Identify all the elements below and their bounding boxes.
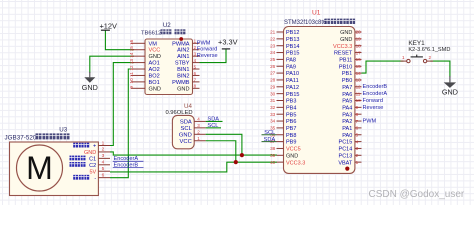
- svg-text:Forward: Forward: [197, 47, 218, 53]
- svg-text:AO1: AO1: [149, 61, 160, 67]
- wire U2 GND pin to ground symbol: [90, 56, 134, 72]
- svg-text:5: 5: [356, 132, 359, 137]
- svg-text:32: 32: [270, 105, 276, 110]
- U1 left pin PA10 number 27: [270, 71, 299, 78]
- svg-text:PB4: PB4: [286, 105, 296, 111]
- U1 bottom marker dot: [345, 167, 349, 171]
- svg-text:C2: C2: [89, 163, 96, 169]
- svg-text:1: 1: [402, 55, 405, 60]
- U1 left pin PA12 number 29: [270, 84, 299, 91]
- U2 right pin STBY: [175, 58, 200, 67]
- MCU board U1 subtitle STM32: [284, 19, 355, 27]
- U2 right pin AIN2: [177, 45, 199, 54]
- U1 right pin PC14 number 3: [339, 146, 362, 152]
- U2 left pin GND: [129, 86, 161, 93]
- U2 right pin GND: [177, 84, 199, 93]
- U1 left pin PB3 number 31: [270, 98, 296, 105]
- svg-text:VCC: VCC: [149, 48, 161, 54]
- svg-text:PC13: PC13: [339, 153, 353, 159]
- svg-text:7: 7: [356, 119, 359, 124]
- U1 right pin GND number 20: [340, 30, 361, 36]
- U2 left pin AO1: [129, 59, 160, 67]
- svg-text:GND: GND: [149, 86, 161, 92]
- svg-text:SDA: SDA: [208, 116, 220, 122]
- svg-text:28: 28: [270, 78, 276, 83]
- svg-text:4: 4: [197, 116, 200, 121]
- svg-text:22: 22: [270, 36, 276, 41]
- wire KEY1 right terminal to ground: [430, 61, 450, 76]
- svg-text:8: 8: [356, 112, 359, 117]
- wire U4 VCC pin to VCC3.3 net: [206, 141, 236, 162]
- svg-text:Forward: Forward: [363, 98, 384, 104]
- driver module U2 subtitle TB6612: [141, 29, 185, 36]
- svg-text:GND: GND: [179, 132, 192, 138]
- svg-text:K2-3.6*6.1_SMD: K2-3.6*6.1_SMD: [408, 47, 450, 53]
- svg-text:2: 2: [102, 147, 105, 153]
- svg-text:PB12: PB12: [286, 30, 299, 36]
- svg-text:6: 6: [102, 172, 105, 178]
- wire U1 PB1 to KEY1 left terminal: [362, 61, 404, 73]
- svg-text:PB8: PB8: [286, 133, 296, 139]
- MCU board U1 body: [284, 27, 355, 174]
- motor U3 subtitle JGB37-520: [5, 133, 70, 141]
- svg-text:30: 30: [270, 91, 276, 96]
- U1 left pin PA11 number 28: [270, 78, 299, 85]
- U1 left pin PB12 number 21: [270, 30, 299, 37]
- svg-text:U4: U4: [184, 103, 192, 110]
- wire U2 AO1 to motor pin1: [110, 63, 134, 146]
- svg-text:4: 4: [102, 160, 105, 166]
- svg-text:BIN2: BIN2: [177, 73, 189, 79]
- svg-text:11: 11: [129, 72, 134, 77]
- U1 left pin PB9 number 37: [270, 139, 296, 146]
- svg-text:27: 27: [270, 71, 276, 76]
- svg-text:GND: GND: [286, 153, 298, 159]
- svg-text:PB11: PB11: [339, 58, 352, 64]
- svg-text:VBAT: VBAT: [338, 160, 353, 166]
- U1 right pin PA5 number 10: [342, 98, 361, 104]
- svg-text:GND: GND: [442, 88, 458, 97]
- svg-text:14: 14: [129, 52, 134, 58]
- svg-text:39: 39: [270, 153, 276, 158]
- svg-text:SCL: SCL: [181, 126, 193, 132]
- U1 left pin PB4 number 32: [270, 105, 296, 112]
- svg-text:PWM: PWM: [197, 40, 211, 46]
- svg-text:4: 4: [356, 139, 359, 144]
- svg-text:JGB37-520: JGB37-520: [5, 135, 37, 142]
- svg-text:VCC3.3: VCC3.3: [333, 44, 352, 50]
- svg-text:VM: VM: [149, 41, 158, 47]
- U1 right pin PC13 number 2: [339, 153, 362, 159]
- U2 left pin VM: [129, 39, 157, 47]
- U1 left pin PB15 number 30: [270, 91, 299, 98]
- power port +3.3V: [218, 37, 238, 49]
- svg-text:SDA: SDA: [180, 120, 192, 126]
- svg-text:1: 1: [197, 136, 200, 141]
- OLED header U4 body: [172, 115, 194, 148]
- U1 right pin RESET number 17: [334, 50, 362, 56]
- U1 right pin PA3 number 8: [342, 112, 361, 118]
- svg-text:PB10: PB10: [339, 64, 352, 70]
- U1 left pin PB7 number 35: [270, 126, 296, 133]
- wire +12V to U2 VCC pin: [105, 30, 134, 50]
- U2 right pin PWMB: [172, 77, 199, 86]
- svg-text:STM32f103c8t6: STM32f103c8t6: [284, 20, 327, 26]
- U1 right pin PB0 number 13: [342, 78, 362, 84]
- U1 left pin PB14 number 23: [270, 43, 299, 50]
- wire motor GND pin2 to U1 pin39 GND: [110, 152, 277, 155]
- U1 right pin PA4 number 9: [342, 105, 361, 111]
- svg-text:Reverse: Reverse: [363, 105, 384, 111]
- svg-text:40: 40: [270, 160, 276, 165]
- U4 pin VCC: [180, 136, 206, 145]
- U2 right pin AIN1: [177, 52, 199, 61]
- U1 left pin PA8 number 25: [270, 57, 296, 64]
- svg-text:15: 15: [356, 64, 362, 69]
- wire U4 SDA stub: [206, 120, 223, 122]
- U4 pin SDA: [180, 116, 206, 125]
- svg-text:C1: C1: [89, 156, 96, 162]
- svg-text:PA0: PA0: [342, 133, 352, 139]
- U2 right pin BIN1: [177, 64, 199, 73]
- svg-text:15: 15: [129, 46, 134, 52]
- svg-text:VCC5: VCC5: [286, 147, 301, 153]
- U1 left pin PB15 number 24: [270, 50, 299, 57]
- wire U2 AO2 to motor pin6: [110, 69, 134, 178]
- svg-text:18: 18: [356, 43, 362, 48]
- U1 left pin VCC5 number 38: [270, 146, 301, 153]
- wire U2 STBY to +3.3V: [200, 49, 227, 63]
- svg-text:23: 23: [270, 43, 276, 48]
- svg-text:AO2: AO2: [149, 67, 160, 73]
- svg-text:PB0: PB0: [342, 78, 352, 84]
- U1 left pin PB13 number 22: [270, 36, 299, 43]
- svg-text:PB7: PB7: [286, 126, 296, 132]
- U1 right pin PA2 number 7: [342, 119, 361, 125]
- svg-text:29: 29: [270, 84, 276, 89]
- svg-text:6: 6: [356, 126, 359, 131]
- svg-text:16: 16: [129, 39, 134, 45]
- svg-text:26: 26: [270, 64, 276, 69]
- wire U4 SCL stub: [206, 127, 221, 129]
- wire stub SCL at U1 PB8: [262, 134, 277, 136]
- svg-text:2: 2: [429, 55, 432, 60]
- svg-text:10: 10: [129, 78, 134, 84]
- svg-text:PWM: PWM: [363, 118, 377, 124]
- svg-text:33: 33: [270, 112, 276, 117]
- U1 right pin PA1 number 6: [342, 126, 361, 132]
- svg-text:EncoderB: EncoderB: [363, 84, 388, 90]
- svg-text:PC15: PC15: [339, 140, 353, 146]
- svg-text:25: 25: [270, 57, 276, 62]
- svg-text:PB5: PB5: [286, 112, 296, 118]
- svg-text:PA10: PA10: [286, 71, 299, 77]
- power port +12V: [99, 21, 117, 30]
- svg-text:M: M: [26, 150, 53, 186]
- svg-text:11: 11: [356, 91, 361, 96]
- wire stub SDA at U1 PB9: [262, 141, 277, 143]
- svg-text:34: 34: [270, 119, 276, 124]
- svg-text:2: 2: [356, 153, 359, 158]
- U2 pin1 marker dot: [179, 37, 183, 41]
- svg-text:PWMB: PWMB: [172, 80, 190, 86]
- svg-text:PA12: PA12: [286, 85, 299, 91]
- U1 left pin PB8 number 36: [270, 132, 296, 139]
- svg-text:-: -: [94, 176, 96, 182]
- U1 right pin PB1 number 14: [342, 71, 362, 77]
- svg-text:SDA: SDA: [264, 137, 276, 143]
- U2 left pin VCC: [129, 46, 160, 54]
- U2 right pin BIN2: [177, 71, 199, 80]
- svg-text:GND: GND: [82, 83, 98, 92]
- svg-text:5: 5: [102, 166, 105, 172]
- U2 right pin PWMA: [172, 39, 199, 48]
- svg-text:PA2: PA2: [342, 119, 352, 125]
- svg-text:SCL: SCL: [264, 130, 275, 136]
- svg-text:PA11: PA11: [286, 78, 299, 84]
- svg-text:9: 9: [356, 105, 359, 110]
- svg-text:+: +: [93, 144, 96, 150]
- svg-text:3: 3: [356, 146, 359, 151]
- net label EncoderB at motor C2: [113, 163, 144, 169]
- junction dot GND net: [240, 153, 244, 157]
- svg-text:GND: GND: [340, 30, 352, 36]
- wire U4 GND pin to GND net: [206, 134, 242, 155]
- svg-text:U2: U2: [163, 22, 171, 29]
- svg-text:SCL: SCL: [208, 123, 219, 129]
- svg-text:19: 19: [356, 37, 362, 42]
- svg-text:20: 20: [356, 30, 362, 35]
- svg-text:PB9: PB9: [286, 140, 296, 146]
- svg-text:+12V: +12V: [99, 21, 117, 30]
- U1 left pin GND number 39: [270, 153, 298, 160]
- svg-text:CSDN @Godox_user: CSDN @Godox_user: [369, 189, 465, 200]
- svg-text:GND: GND: [84, 150, 96, 156]
- svg-text:38: 38: [270, 146, 276, 151]
- svg-text:10: 10: [356, 98, 362, 103]
- svg-text:PB6: PB6: [286, 119, 296, 125]
- svg-text:PA5: PA5: [342, 99, 352, 105]
- svg-text:U3: U3: [59, 127, 67, 134]
- U2 left pin BO1: [129, 78, 160, 86]
- svg-text:PA8: PA8: [286, 58, 296, 64]
- svg-text:PA1: PA1: [342, 126, 352, 132]
- svg-text:PB14: PB14: [286, 44, 299, 50]
- U3 pin 5V number 5: [89, 166, 110, 175]
- svg-text:1: 1: [356, 160, 359, 165]
- svg-text:1: 1: [102, 140, 105, 146]
- svg-text:EncoderA: EncoderA: [363, 91, 388, 97]
- driver module U2 body: [145, 39, 193, 95]
- svg-text:PA4: PA4: [342, 105, 352, 111]
- svg-text:Reverse: Reverse: [197, 53, 218, 59]
- U1 right pin GND number 19: [340, 37, 361, 43]
- svg-text:21: 21: [270, 30, 276, 35]
- svg-text:PB15: PB15: [286, 92, 299, 98]
- svg-text:VCC: VCC: [180, 139, 192, 145]
- svg-text:2: 2: [197, 129, 200, 134]
- svg-text:PB3: PB3: [286, 99, 296, 105]
- U4 pin SCL: [181, 123, 206, 132]
- svg-text:GND: GND: [149, 54, 161, 60]
- svg-text:RESET: RESET: [334, 51, 353, 57]
- svg-text:5V: 5V: [89, 169, 96, 175]
- svg-text:PC14: PC14: [339, 147, 353, 153]
- svg-text:17: 17: [356, 50, 362, 55]
- svg-text:KEY1: KEY1: [408, 40, 425, 47]
- svg-text:PB15: PB15: [286, 51, 299, 57]
- U2 left pin GND: [129, 52, 161, 60]
- U1 right pin PB10 number 15: [339, 64, 362, 70]
- svg-text:14: 14: [356, 71, 362, 76]
- svg-text:24: 24: [270, 50, 276, 55]
- svg-text:U1: U1: [312, 9, 321, 16]
- U3 pin C1 number 3: [70, 153, 111, 162]
- svg-text:13: 13: [129, 59, 134, 65]
- svg-text:BO2: BO2: [149, 73, 160, 79]
- svg-text:31: 31: [270, 98, 276, 103]
- U1 right pin PC15 number 4: [339, 139, 362, 145]
- svg-text:TB6612: TB6612: [141, 31, 161, 37]
- net label EncoderA at motor C1: [113, 156, 144, 162]
- svg-text:PB13: PB13: [286, 37, 299, 43]
- U3 pin M+ number 1: [73, 140, 110, 149]
- motor U3 circle: [17, 145, 63, 191]
- U3 pin M- number 6: [73, 172, 110, 181]
- ground symbol near KEY1: [442, 76, 458, 97]
- svg-text:3: 3: [197, 123, 200, 128]
- junction dot VCC3.3 net: [234, 160, 238, 164]
- svg-text:AIN2: AIN2: [177, 48, 189, 54]
- U1 left pin PB6 number 34: [270, 119, 296, 126]
- svg-text:+3.3V: +3.3V: [218, 37, 238, 46]
- svg-text:STBY: STBY: [175, 61, 190, 67]
- U1 right pin PA7 number 12: [342, 85, 361, 91]
- U1 right pin VCC3.3 number 18: [333, 43, 361, 49]
- svg-text:13: 13: [356, 78, 362, 83]
- svg-text:PA9: PA9: [286, 64, 296, 70]
- svg-text:3: 3: [102, 153, 105, 159]
- svg-text:PWMA: PWMA: [172, 41, 190, 47]
- U1 right pin PA0 number 5: [342, 132, 361, 138]
- wire VCC3.3 net to U1 pin40 and motor 5V: [110, 162, 277, 172]
- U1 left pin PB5 number 33: [270, 112, 296, 119]
- U1 right pin PB11 number 16: [339, 57, 361, 63]
- svg-text:BO1: BO1: [149, 80, 160, 86]
- svg-text:12: 12: [356, 85, 362, 90]
- U1 right pin VBAT number 1: [338, 160, 361, 166]
- U2 left pin AO2: [129, 65, 160, 73]
- U2 left pin BO2: [129, 72, 160, 80]
- U1 left pin VCC3.3 number 40: [270, 160, 305, 167]
- svg-text:AIN1: AIN1: [177, 54, 189, 60]
- svg-text:GND: GND: [177, 86, 189, 92]
- U3 pin C2 number 4: [70, 160, 111, 169]
- svg-text:PB1: PB1: [342, 71, 352, 77]
- U1 left pin PA9 number 26: [270, 64, 296, 71]
- svg-text:PA3: PA3: [342, 112, 352, 118]
- U1 right pin PA6 number 11: [342, 91, 361, 97]
- motor U3 body: [10, 142, 99, 196]
- U3 pin GND number 2: [84, 147, 110, 156]
- svg-text:BIN1: BIN1: [177, 67, 189, 73]
- ground symbol near U2: [82, 72, 98, 92]
- U4 pin GND: [179, 129, 206, 138]
- svg-text:9: 9: [129, 86, 134, 89]
- svg-text:12: 12: [129, 65, 134, 71]
- svg-text:GND: GND: [340, 37, 352, 43]
- svg-text:PA6: PA6: [342, 92, 352, 98]
- svg-text:PA7: PA7: [342, 85, 352, 91]
- svg-text:VCC3.3: VCC3.3: [286, 160, 305, 166]
- push button KEY1 symbol: [401, 55, 434, 63]
- svg-text:16: 16: [356, 57, 362, 62]
